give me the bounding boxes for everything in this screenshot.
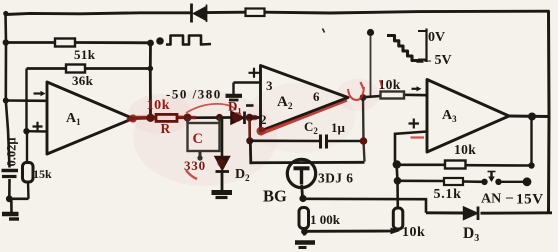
A3 minus marker arrow — [412, 86, 422, 91]
A1 plus marker — [33, 122, 43, 131]
red ink on feedback wire — [251, 139, 287, 141]
svg-text:1μ: 1μ — [331, 120, 346, 135]
ground (under D2) — [212, 193, 233, 198]
wire 36k — [27, 67, 151, 70]
A2 minus marker — [246, 104, 254, 107]
svg-text:2: 2 — [260, 112, 267, 127]
resistor 36k — [66, 65, 94, 89]
wire 15k branch vertical x27 — [26, 131, 28, 163]
red scribble arc over D1 area — [186, 104, 236, 113]
node 51k left — [3, 39, 9, 45]
svg-text:36k: 36k — [72, 73, 94, 88]
svg-text:10k: 10k — [454, 142, 476, 157]
capacitor box C with 330 — [184, 118, 220, 174]
wire A3 output — [509, 113, 549, 121]
wire A3 plus input jog — [395, 132, 427, 162]
wire A1 output — [133, 118, 231, 119]
wire A2 out to 10k to A3 minus — [360, 94, 427, 101]
svg-text:3DJ 6: 3DJ 6 — [318, 171, 353, 186]
red scribble at A2 output node — [348, 82, 364, 100]
ground (bottom center) — [295, 243, 315, 248]
diode D1 (on wire, pointing right, red-inked) — [228, 99, 245, 125]
diode top (on feedback line, pointing left) — [192, 4, 207, 23]
wire C2 feedback horizontal — [250, 140, 364, 143]
wire D2 branch vertical x222 — [221, 118, 224, 157]
resistor 10k (vertical bottom) — [391, 208, 426, 240]
svg-text:15k: 15k — [33, 167, 52, 181]
ground (under A2 pin3) — [226, 96, 243, 100]
op-amp A2 — [260, 66, 348, 132]
svg-text:AN: AN — [481, 192, 501, 207]
node C-box left (red covered) — [184, 114, 192, 122]
capacitor C2 plates — [321, 135, 327, 149]
label C2 1u — [304, 119, 346, 136]
wire top feedback line — [6, 11, 549, 14]
ink speck — [323, 29, 325, 33]
svg-text:6: 6 — [313, 89, 320, 104]
svg-text:C: C — [193, 131, 203, 147]
svg-text:15V: 15V — [516, 192, 544, 208]
wire A3 output down x531 — [528, 117, 534, 169]
op-amp A3 — [427, 80, 509, 153]
wire gate row y199 — [303, 199, 426, 213]
A2 plus marker — [249, 68, 260, 78]
label 0.02u (rotated) — [5, 138, 19, 167]
wire BG drain horizontal — [250, 141, 364, 163]
wire 100k bottom to ground join — [301, 228, 396, 235]
resistor top (on feedback line) — [246, 9, 265, 17]
ground (left) — [2, 214, 19, 219]
svg-text:3: 3 — [266, 78, 273, 93]
wire left side vertical (with 0.02u cap branch) — [6, 13, 10, 199]
wire feedback node vertical x150 — [147, 40, 154, 118]
wire 36k to A1 plus input vertical x26.5 — [25, 69, 27, 132]
svg-text:–: – — [505, 190, 514, 205]
wire 5.1k row y181 — [398, 181, 482, 182]
wire A2 pin3 to ground — [234, 83, 261, 95]
node square wave tap — [156, 37, 164, 45]
diode D2 (pointing down) — [215, 157, 250, 191]
node A1 minus input — [3, 98, 9, 104]
wire node x397 vertical — [393, 160, 402, 208]
wire A2 output node down x363 — [360, 98, 368, 162]
svg-text:– 5V: – 5V — [423, 53, 452, 68]
wire 10k feedback row y165 — [397, 164, 532, 167]
capacitor C 0.02u plates — [2, 171, 19, 177]
svg-text:-50 /380: -50 /380 — [166, 87, 222, 102]
wire A1 minus input — [6, 99, 47, 102]
svg-text:0.02μ: 0.02μ — [5, 138, 19, 167]
test point node and stem — [367, 29, 374, 96]
square wave symbol — [166, 36, 211, 45]
svg-text:1 00k: 1 00k — [310, 212, 341, 227]
transistor BG 3DJ6 — [263, 159, 353, 205]
switch AN — [481, 172, 544, 208]
svg-text:R: R — [161, 121, 171, 136]
op-amp A1 — [47, 82, 133, 154]
node BG source — [299, 195, 306, 202]
resistor 100k — [299, 208, 341, 229]
diode D3 (pointing right) — [463, 207, 479, 245]
wire A1 plus input — [23, 128, 47, 134]
wire D1 to A2 pin2 — [246, 114, 261, 122]
resistor 51k — [55, 39, 96, 63]
resistor 5.1k — [434, 178, 464, 202]
resistor R 10k (red) — [147, 98, 178, 136]
svg-text:5.1k: 5.1k — [434, 187, 462, 202]
node top-left — [3, 11, 8, 16]
resistor 10k (A3 feedback) — [445, 142, 476, 169]
red mark under A3 plus wire — [411, 136, 425, 138]
wire A2 pin2 down to feedback — [246, 118, 253, 145]
resistor 10k (A2-A3) — [379, 77, 405, 99]
svg-text:0V: 0V — [428, 30, 445, 45]
svg-text:10k: 10k — [402, 225, 425, 240]
node A1 out / x150 (red covered) — [146, 114, 154, 122]
A3 plus marker — [409, 119, 420, 129]
wire bottom-left join — [6, 195, 29, 212]
node C-box right — [216, 114, 223, 121]
wire D3 row y213 — [426, 211, 552, 214]
svg-text:51k: 51k — [74, 47, 96, 62]
resistor 15k — [23, 163, 53, 199]
red scribble under 330 — [186, 170, 197, 179]
wire 51k — [6, 41, 151, 44]
A1 minus marker arrow — [34, 91, 46, 96]
red overlay trace A1 output — [127, 115, 196, 123]
staircase waveform annotation — [387, 29, 452, 69]
label -50/380 — [166, 87, 222, 102]
svg-text:BG: BG — [263, 187, 287, 206]
red retrace A2 hypotenuse — [257, 101, 348, 136]
wire right side vertical — [547, 11, 551, 212]
